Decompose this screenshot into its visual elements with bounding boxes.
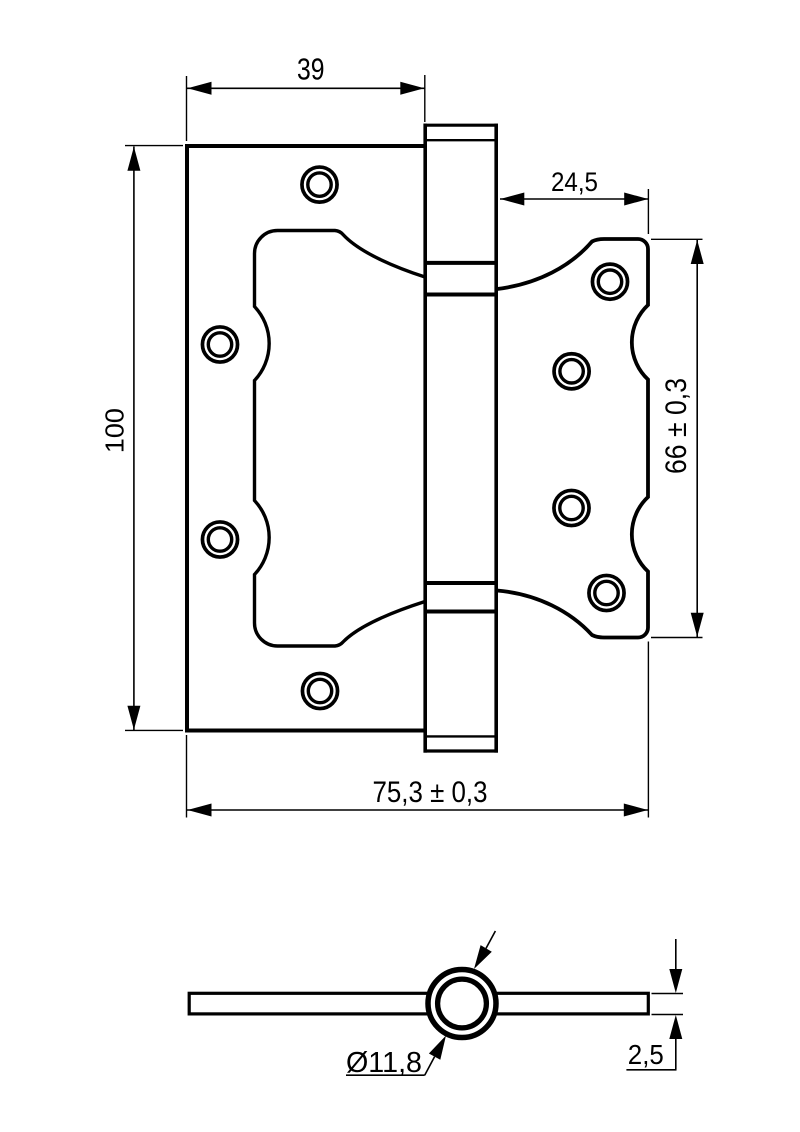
dim 39 arrow right — [400, 82, 424, 95]
dim 100 line — [133, 147, 135, 731]
dim 39 extension line left — [186, 76, 188, 141]
barrel upper band line 2 — [424, 293, 499, 297]
barrel right edge — [494, 124, 498, 753]
screw hole left-upper-mid — [202, 327, 237, 362]
section top leader line — [486, 931, 495, 948]
svg-text:75,3 ± 0,3: 75,3 ± 0,3 — [373, 776, 488, 809]
svg-text:2,5: 2,5 — [628, 1039, 664, 1070]
section knuckle inner circle — [438, 979, 487, 1028]
dim 39 extension line right — [424, 75, 426, 122]
screw hole right-bottom — [589, 575, 624, 610]
dim 2,5 extension line top — [652, 993, 684, 995]
dim 2,5 shelf — [626, 1069, 676, 1071]
dim 75,3 extension line right — [647, 642, 649, 818]
barrel bottom edge — [424, 749, 499, 752]
left leaf cutout — [255, 231, 426, 647]
screw hole left-lower-mid — [202, 522, 237, 557]
screw hole right-top — [592, 264, 627, 299]
dim 24,5 arrow left — [500, 193, 524, 206]
dim 2,5 lower line — [675, 1038, 677, 1070]
dim 100 arrow up — [127, 147, 140, 171]
barrel top cap line — [424, 139, 499, 141]
left leaf outline — [187, 146, 425, 731]
dia leader diagonal — [425, 1057, 435, 1076]
dim 2,5 upper line — [675, 939, 677, 970]
dim 24,5 extension line right — [647, 189, 649, 234]
barrel lower band line 1 — [424, 581, 499, 585]
screw hole left-bottom — [302, 673, 337, 708]
dia leader shelf — [346, 1074, 425, 1076]
dim 66 arrow up — [691, 240, 704, 264]
svg-text:100: 100 — [100, 408, 130, 453]
dim 66 extension line top — [651, 238, 703, 240]
barrel upper band line 1 — [424, 261, 499, 265]
screw hole right-lower-mid — [554, 490, 589, 525]
dim 66 line — [696, 240, 698, 637]
section knuckle outer circle — [428, 970, 496, 1038]
dim 75,3 extension line left — [186, 735, 188, 818]
svg-text:24,5: 24,5 — [551, 167, 598, 197]
right leaf outline — [497, 239, 648, 638]
dim 2,5 extension line bottom — [652, 1014, 684, 1016]
screw hole right-upper-mid — [554, 354, 589, 389]
screw hole left-top — [302, 167, 337, 202]
svg-text:Ø11,8: Ø11,8 — [346, 1047, 422, 1079]
barrel bottom cap line — [424, 735, 499, 737]
dia leader arrow — [429, 1036, 446, 1060]
svg-text:66 ± 0,3: 66 ± 0,3 — [660, 378, 693, 474]
dim 39 arrow left — [188, 82, 212, 95]
dim 66 arrow down — [691, 613, 704, 637]
svg-text:39: 39 — [297, 52, 325, 87]
dim 75,3 arrow left — [188, 804, 212, 817]
dim 2,5 arrow down — [669, 969, 682, 993]
dim 100 arrow down — [127, 706, 140, 730]
dim 39 line — [187, 87, 425, 89]
barrel lower band line 2 — [424, 610, 499, 614]
dim 75,3 arrow right — [624, 804, 648, 817]
section bar outline — [189, 993, 648, 1014]
barrel top edge — [424, 124, 499, 127]
barrel left edge — [423, 124, 427, 753]
dim 100 extension line bottom — [125, 729, 183, 731]
dim 2,5 arrow up — [669, 1015, 682, 1039]
dim 100 extension line top — [125, 145, 183, 147]
dim 75,3 line — [187, 809, 648, 811]
dim 66 extension line bottom — [651, 637, 703, 639]
dim 24,5 arrow right — [624, 193, 648, 206]
section top leader arrow — [474, 945, 492, 969]
dim 24,5 line — [500, 198, 648, 200]
